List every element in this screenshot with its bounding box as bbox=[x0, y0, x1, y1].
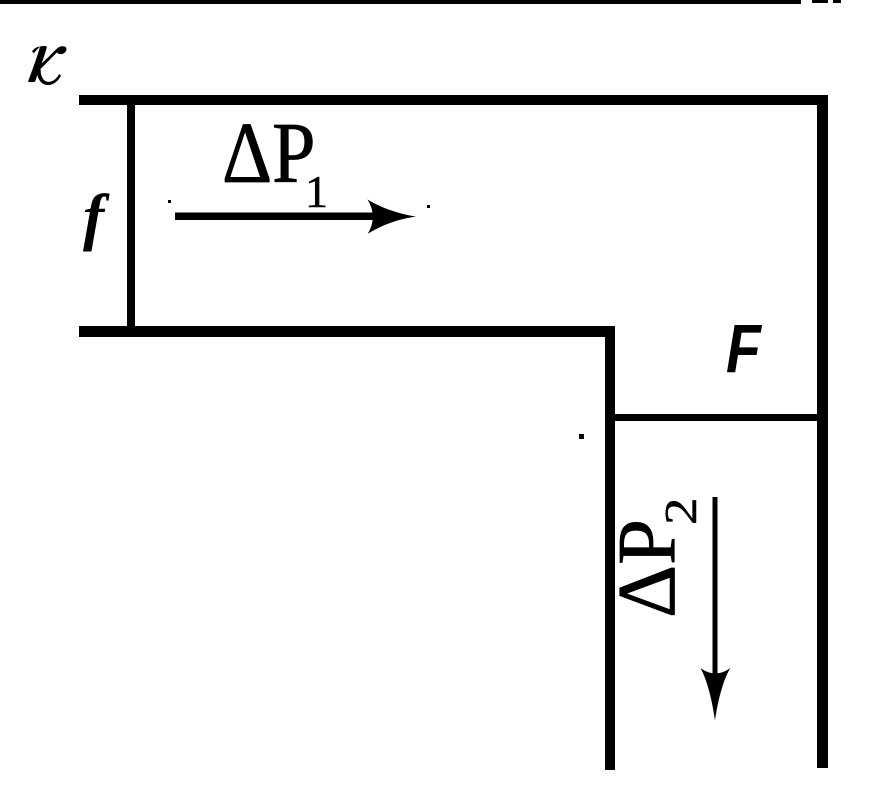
arrow1 head bbox=[368, 200, 417, 234]
piston F (large piston, horizontal) bbox=[614, 414, 817, 421]
piston f (small piston, vertical) bbox=[127, 97, 135, 332]
kappa stem bbox=[28, 46, 47, 82]
top border line of scanned figure bbox=[0, 0, 801, 4]
scan speck near corner bbox=[579, 434, 584, 439]
scan speck near label f bbox=[168, 200, 171, 203]
kappa upper arm with blob bbox=[39, 46, 67, 68]
scan speck near arrowhead bbox=[427, 205, 430, 208]
arrow1 shaft bbox=[175, 213, 380, 221]
label deltaP2 (rotated 90deg CCW) bbox=[599, 519, 694, 618]
left wall of vertical cylinder bbox=[605, 326, 615, 770]
kappa lower arm (c-curve) bbox=[37, 66, 61, 85]
right wall (shared by both cylinders) bbox=[817, 95, 828, 768]
label F bbox=[726, 311, 761, 389]
kappa top hook bbox=[32, 47, 40, 54]
arrow deltaP2 shaft (vertical, pointing down) bbox=[713, 497, 718, 682]
top border speck 2 bbox=[833, 0, 841, 3]
top border speck 1 bbox=[812, 0, 828, 3]
label kappa (lever/valve label) bbox=[26, 40, 76, 89]
subscript 1 of deltaP1 bbox=[305, 165, 328, 218]
subscript 2 of deltaP2 bbox=[654, 497, 707, 525]
top wall of horizontal cylinder bbox=[79, 95, 828, 105]
bottom wall of horizontal cylinder bbox=[79, 326, 615, 337]
arrow2 head bbox=[701, 668, 731, 721]
label deltaP1 bbox=[222, 103, 316, 203]
label f bbox=[83, 180, 104, 254]
